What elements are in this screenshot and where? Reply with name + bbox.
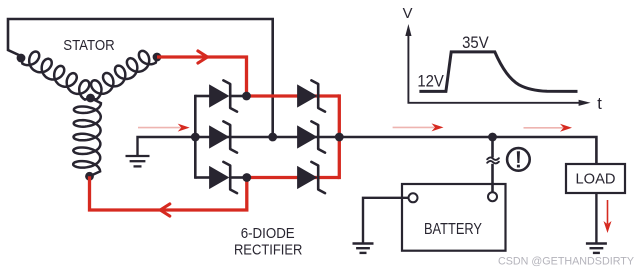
svg-text:t: t [597,94,602,113]
stator winding L2 (upper-right coil) [91,51,158,100]
graph label 12V [417,73,444,91]
junction: phase-2 node [268,133,277,142]
wire: top row anode stub (left column) [195,95,210,98]
wire: battery negative lead to ground [363,198,409,244]
wire: bottom row cathode stub to phase-3 node [231,176,247,179]
battery terminal - (left, open circle) [409,193,418,202]
current arrowhead on stator B wire [198,51,208,63]
current arrowhead on return wire (pointing left) [160,204,170,216]
avalanche diode D5 (middle right) [298,121,325,152]
svg-text:6-DIODE: 6-DIODE [241,226,295,242]
avalanche diode D1 (top left) [210,80,237,111]
load box [566,164,625,193]
graph label 35V [462,34,489,52]
graph: load dump waveform [419,52,577,92]
label 6-DIODE RECTIFIER [241,226,295,242]
flow arrow into rectifier (thin) [138,127,181,129]
ground G2 (battery negative) [353,242,374,244]
avalanche diode D6 (bottom right) [298,162,325,193]
svg-text:CSDN @GETHANDSDIRTY: CSDN @GETHANDSDIRTY [498,256,634,268]
graph: V axis [407,34,409,104]
label STATOR [63,38,115,54]
svg-text:LOAD: LOAD [576,172,616,188]
junction: battery tap on DC bus [488,133,497,142]
svg-text:35V: 35V [462,34,489,52]
wire: red top rectifier row (phase-1 node to DC+ bus) [247,94,340,97]
label BATTERY [424,221,482,238]
svg-text:STATOR: STATOR [63,38,115,54]
junction: phase-3 node [242,173,251,182]
wire: middle rectifier row (phase-2) [195,136,339,139]
stator winding L1 (upper-left coil) [21,52,91,100]
battery terminal + (right, open circle) [488,192,497,201]
wire: red bottom rectifier row [247,176,339,179]
svg-text:RECTIFIER: RECTIFIER [234,243,303,259]
wire: bottom row anode stub (left column) [195,176,210,179]
load current arrow (thin red, downward) [607,200,609,224]
wire: battery positive lead (above break) [491,137,494,158]
node: stator terminal C (bottom) [85,172,94,181]
wire: ground stub to left bus [138,137,196,156]
wire: DC+ output bus to load [339,137,596,164]
wire: load to ground [595,193,597,244]
node: stator terminal B (top-right) [153,53,162,62]
avalanche diode D4 (top right) [298,80,325,111]
stator winding L3 (vertical coil) [73,98,101,176]
wire: red current path from stator B to rectifier phase-1 node [157,57,247,96]
wire: red return path from phase-3 node to stator C [90,176,247,210]
svg-text:12V: 12V [417,73,444,91]
graph label t [597,94,602,113]
ground G1 (rectifier negative) [126,155,150,157]
label LOAD [576,172,616,188]
avalanche diode D3 (bottom left) [210,162,237,193]
junction: ground bus / middle row [191,133,200,142]
flow arrow on DC bus left of junction (thin) [393,126,435,128]
break symbol (momentary disconnect) [487,157,499,160]
avalanche diode D2 (middle left) [210,121,237,152]
graph label V [403,6,413,22]
node: stator terminal A (top-left) [17,54,26,63]
battery BT1 box [402,184,506,251]
watermark CSDN @GETHANDSDIRTY [498,256,634,268]
flow arrow on DC bus right of junction (thin) [524,127,564,129]
svg-text:V: V [403,6,413,22]
wire: top row cathode stub to phase-1 node [231,95,247,98]
wire: battery positive lead (below break) [491,164,494,192]
ground G3 (load return) [586,242,607,244]
junction: phase-1 node [242,92,251,101]
wire: red DC+ right bus [338,94,341,179]
warning symbol (circled exclamation) [507,148,530,171]
wire: top bus from stator terminal A up and across to phase-2 node [8,19,273,137]
junction: DC+ bus / middle row [335,133,344,142]
node: stator neutral center [86,94,95,103]
svg-text:BATTERY: BATTERY [424,221,482,238]
wire: rectifier left (ground) bus [194,95,197,179]
graph: t axis [408,102,581,104]
